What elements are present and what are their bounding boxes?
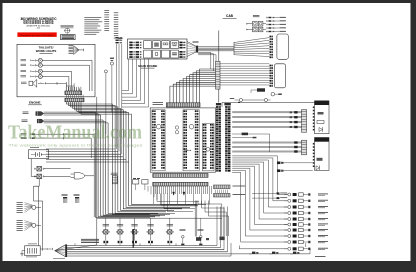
- right-side pin strip R2: [224, 103, 230, 172]
- cab module K2: [270, 64, 286, 88]
- cab fuse block F1: [246, 21, 266, 31]
- panel side comb connectors: [214, 185, 246, 197]
- solenoid relay K5: [147, 218, 155, 245]
- pressure switch SW1: [180, 229, 186, 245]
- main harness fan connector to bottom bus: [40, 244, 67, 258]
- lower-right connector rows: [284, 193, 328, 251]
- bottom line inline connectors: [249, 252, 299, 254]
- solenoid relay K3: [116, 218, 123, 245]
- watermark notice line: [8, 143, 142, 148]
- alarm speaker: [21, 79, 74, 87]
- connector strip C8: [302, 140, 307, 155]
- row 10 feed from bottom bus: [239, 243, 310, 254]
- work lamp L2: [21, 63, 43, 67]
- wire from starter to fuel sender: [34, 186, 43, 251]
- panel bottom connector strip row N: [153, 182, 208, 186]
- svg-text:ENGINE: ENGINE: [29, 101, 41, 105]
- engine harness fan-out wires to main-frame verticals: [66, 102, 206, 215]
- solenoid relay K6: [166, 218, 174, 245]
- glow plug connector pair: [21, 133, 94, 139]
- solenoid relay K4: [131, 218, 139, 245]
- panel top connector strip: [153, 102, 201, 107]
- accessory wire pair group 2: [232, 141, 301, 152]
- connector panel P2 pin rows: [183, 110, 199, 171]
- heavy feed wire at relay K4: [132, 229, 134, 248]
- panel bottom connector strip row M: [153, 174, 208, 178]
- M2 input connectors: [277, 162, 313, 173]
- engine sender connector A2: [22, 119, 109, 123]
- horn button: [271, 92, 282, 96]
- harness funnel to cab: [187, 41, 199, 57]
- sensor pigtail T2: [74, 194, 80, 203]
- ENGINE section label: [28, 101, 42, 106]
- fuse/relay panel enclosure: [128, 39, 188, 59]
- lamp wiring to tailgate connector: [42, 60, 92, 91]
- work lamp L4: [21, 74, 43, 78]
- left engine vertical wire group: [96, 112, 175, 218]
- svg-text:Bobcat: Bobcat: [184, 150, 191, 152]
- svg-text:TakeManual.com: TakeManual.com: [8, 122, 142, 143]
- fuel tank sender unit: [20, 244, 40, 258]
- svg-text:The watermark only appears in: The watermark only appears in the free s…: [8, 143, 142, 148]
- long vertical harness wires x94-97: [56, 60, 97, 250]
- CAB section label: [223, 14, 237, 19]
- panel comb drop wires to junction block: [195, 201, 228, 237]
- fuse panel bottom drop wires: [122, 59, 149, 107]
- accessory wire pair group 1: [232, 111, 301, 128]
- relay sockets T4 T5: [133, 178, 148, 190]
- ground fan connector G2: [17, 220, 42, 231]
- pressure switch SW2: [198, 218, 204, 245]
- bottom bus risers: [75, 243, 176, 245]
- work lamp L1: [21, 58, 43, 62]
- svg-text:CAB: CAB: [226, 14, 234, 18]
- certification stamp: [61, 25, 76, 40]
- tailgate harness connector fan: [69, 45, 84, 54]
- comb return stubs to left bundle: [148, 186, 157, 200]
- actuator module M1: [313, 101, 329, 134]
- title block: 863 WIRING SCHEMATIC: [21, 17, 58, 30]
- watermark TakeManual.com: [8, 122, 142, 143]
- net list column B: [114, 12, 119, 38]
- solenoid relay K2: [102, 218, 110, 245]
- cab riser bundle (panel to cab): [170, 69, 216, 103]
- bottom nested corner bundle from comb: [157, 194, 199, 212]
- actuator module M2: [313, 138, 329, 171]
- spare connector dots: [118, 38, 123, 41]
- main frame electrical panel outline: [150, 108, 215, 172]
- red link box: Printable Version Click Here: [17, 32, 56, 37]
- fuel/brake warning text block: [81, 239, 99, 243]
- cab main vertical harness wire: [218, 31, 220, 103]
- junction connector blobs: [196, 237, 225, 241]
- seat bar switch: [230, 98, 271, 103]
- connector strip C7: [302, 110, 307, 133]
- dome lamp: [251, 88, 265, 93]
- TAILGATE/WORK LIGHTS enclosure box: [17, 44, 95, 97]
- battery B1: [29, 147, 49, 158]
- work lamp L3: [21, 69, 43, 73]
- sensor pigtail T1: [62, 194, 68, 203]
- engine harness connector strip C2: [65, 95, 84, 102]
- fuse panel right connectors: [179, 42, 185, 58]
- cab relay module K1: [270, 34, 289, 59]
- connector panel P3 pin rows: [202, 124, 214, 171]
- right-side pin strip R1: [216, 103, 221, 172]
- engine-to-frame wire bundle (mid corners): [46, 149, 129, 162]
- starter solenoid S1: [34, 166, 70, 171]
- inline fuse on accessory feed: [232, 133, 270, 152]
- cab fuse label: [253, 15, 260, 17]
- fuse panel left connectors: [129, 42, 141, 58]
- net list column A: [104, 10, 109, 31]
- cab strip-to-K2 wires: [220, 64, 269, 85]
- panel bottom pin comb: [154, 186, 212, 205]
- alternator connector A1: [23, 112, 101, 116]
- cab accessory connector rows: [266, 17, 285, 32]
- ground fan connector G1: [17, 202, 42, 213]
- harness fan to lower-right connectors: [232, 156, 287, 242]
- bottom harness bus wires: [67, 207, 310, 257]
- MAIN FRAME section label: [138, 64, 157, 69]
- inline splice pairs above verticals: [116, 37, 123, 154]
- svg-text:Printable Version Click Here: Printable Version Click Here: [20, 34, 55, 37]
- spare pigtail rows: [252, 192, 287, 199]
- inter-panel terminal circles: [175, 126, 178, 134]
- svg-text:WORK LIGHTS: WORK LIGHTS: [36, 49, 57, 53]
- svg-text:MAIN FRAME: MAIN FRAME: [138, 64, 157, 68]
- tailgate box bottom connector strip C1: [65, 87, 82, 95]
- cab floor harness top rail: [222, 103, 316, 107]
- cab lower connector strip C5: [216, 61, 221, 89]
- bobcat logo: [184, 150, 191, 152]
- cab feed bundle from funnel: [198, 47, 234, 73]
- main lower bus wire: [97, 217, 222, 219]
- oil pressure sender T3: [111, 173, 118, 184]
- starter motor S2: [31, 159, 70, 201]
- revision note text block: [84, 17, 102, 34]
- connector panel P1 pin rows: [152, 110, 165, 171]
- cab feed fan wires to K1: [234, 38, 269, 57]
- fuse panel relay sockets grid: [144, 41, 179, 58]
- lower-right footnote label: [315, 255, 326, 258]
- svg-text:4-01: 4-01: [37, 28, 40, 30]
- key switch splice: [104, 58, 114, 135]
- fuel shutoff diode gate D1: [71, 134, 95, 217]
